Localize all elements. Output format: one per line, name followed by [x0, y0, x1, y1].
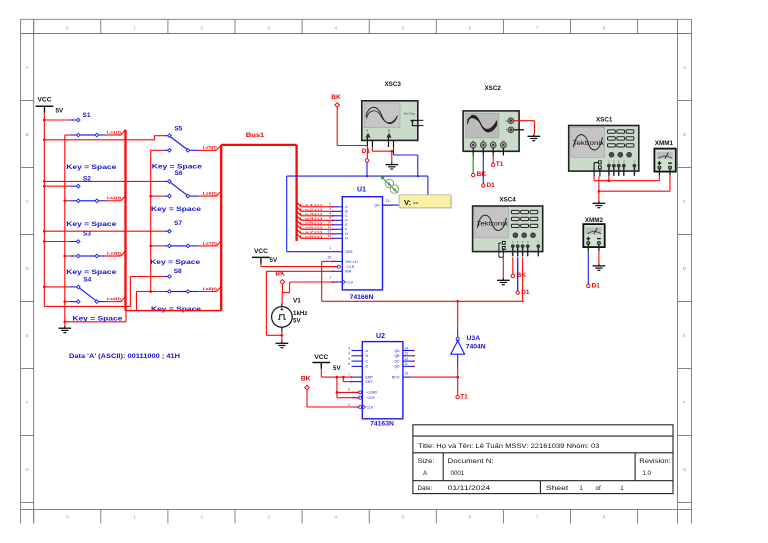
wire Q output feedback loop to SER — [287, 175, 428, 252]
svg-text:74166N: 74166N — [350, 294, 374, 301]
svg-text:0: 0 — [66, 25, 69, 30]
svg-text:BK: BK — [275, 270, 285, 277]
svg-text:11: 11 — [405, 362, 409, 366]
svg-text:Ls4(t): Ls4(t) — [300, 216, 323, 220]
wire XSC1/XMM1 red net 2 to ground — [598, 176, 670, 202]
op-amp/IC U1 74166N shift register — [327, 187, 392, 302]
connector BK (left of U2) — [301, 375, 311, 390]
svg-text:11: 11 — [328, 225, 332, 229]
svg-text:T: T — [505, 128, 507, 132]
svg-text:Document N:: Document N: — [448, 458, 494, 465]
instrument XSC3 oscilloscope — [362, 81, 424, 147]
power VCC symbol (U2) — [312, 354, 341, 372]
wire XSC2 G to ground — [514, 121, 535, 135]
svg-text:BK: BK — [301, 375, 311, 382]
ground G2 (below V1) — [276, 341, 289, 348]
svg-text:5: 5 — [402, 515, 405, 520]
node terminal dots U1 control pins — [332, 260, 339, 283]
svg-text:BK: BK — [331, 94, 341, 101]
svg-text:QH: QH — [374, 204, 380, 208]
svg-text:Ls5(t): Ls5(t) — [203, 145, 218, 150]
svg-text:3: 3 — [267, 515, 270, 520]
svg-text:2: 2 — [200, 25, 203, 30]
svg-text:S1: S1 — [83, 112, 91, 119]
svg-text:1.0: 1.0 — [642, 470, 651, 477]
svg-text:XSC1: XSC1 — [596, 117, 613, 124]
svg-text:7: 7 — [348, 373, 350, 377]
svg-text:VCC: VCC — [38, 97, 52, 104]
switch S8 — [130, 268, 221, 313]
instrument XMM1 multimeter — [654, 140, 675, 175]
svg-text:15: 15 — [405, 372, 409, 376]
svg-text:F: F — [345, 228, 347, 232]
switch S4 — [44, 277, 125, 323]
svg-text:F: F — [683, 400, 686, 405]
instrument XMM2 multimeter — [583, 217, 604, 251]
svg-text:Key = Space: Key = Space — [72, 316, 123, 323]
svg-text:E: E — [683, 333, 686, 338]
svg-text:Ls1(t): Ls1(t) — [300, 203, 323, 207]
svg-text:13: 13 — [386, 199, 390, 203]
svg-text:0: 0 — [66, 515, 69, 520]
svg-text:Ls5(t): Ls5(t) — [300, 221, 323, 225]
svg-text:Bus1: Bus1 — [246, 132, 265, 139]
svg-text:6: 6 — [348, 362, 350, 366]
svg-text:Key = Space: Key = Space — [66, 269, 117, 276]
svg-text:Ls8(t): Ls8(t) — [203, 286, 218, 291]
svg-text:4: 4 — [335, 25, 338, 30]
svg-text:Sheet: Sheet — [546, 485, 569, 492]
label Bus1 — [246, 132, 265, 139]
wire XMM2 plus (blue) to D1 — [587, 251, 589, 284]
probe V readout box — [399, 195, 452, 209]
svg-text:01/11/2024: 01/11/2024 — [448, 485, 491, 492]
svg-text:2: 2 — [348, 403, 350, 407]
wire XSC2 C to T1 — [492, 156, 494, 164]
wire VCC rail1 vertical with bottom jog to S8 feed — [44, 113, 130, 307]
svg-text:5V: 5V — [270, 257, 278, 264]
wire XSC2 B (blue) to D1 — [482, 156, 484, 184]
svg-text:10: 10 — [327, 221, 331, 225]
wire XSC4 ch2 to D1 — [517, 257, 519, 291]
svg-text:7404N: 7404N — [466, 344, 486, 351]
switch S6 — [44, 170, 221, 213]
svg-text:B: B — [388, 129, 390, 133]
svg-text:QD: QD — [394, 365, 400, 369]
connector BK (near V1/CLK) — [275, 270, 285, 292]
svg-text:5: 5 — [329, 216, 331, 220]
connector D1 (below XSC3) — [362, 148, 371, 162]
probe measurement icon (A/V green) — [380, 175, 398, 193]
svg-text:5: 5 — [402, 25, 405, 30]
wire XSC4 ch3 to T1 net — [522, 257, 524, 301]
svg-text:15: 15 — [327, 256, 331, 260]
connector BK (above XSC3) — [331, 94, 341, 107]
border zone labels — [25, 25, 687, 519]
svg-text:Ls4(t): Ls4(t) — [107, 296, 122, 301]
switch S7 — [44, 220, 221, 266]
svg-text:Ls7(t): Ls7(t) — [203, 240, 218, 245]
svg-text:G: G — [683, 467, 687, 472]
bus Bus1 (thick red) — [126, 130, 297, 311]
svg-text:XSC2: XSC2 — [484, 85, 501, 92]
svg-text:S5: S5 — [174, 126, 182, 133]
svg-text:2: 2 — [200, 515, 203, 520]
ground G4 (right of XSC2) — [528, 134, 541, 141]
svg-text:Ls3(t): Ls3(t) — [107, 250, 122, 255]
svg-text:D1: D1 — [362, 148, 371, 155]
switch S1 — [44, 112, 125, 171]
svg-text:1: 1 — [620, 485, 624, 492]
op-amp/IC U2 74163N counter — [348, 333, 415, 427]
svg-text:T1: T1 — [460, 393, 468, 400]
svg-text:Key = Space: Key = Space — [150, 259, 201, 266]
gate U3A 7404N inverter — [451, 329, 486, 366]
wire U3A output to T1 net — [456, 300, 459, 329]
switch S2 — [44, 176, 125, 229]
svg-text:Ls2(t): Ls2(t) — [300, 207, 323, 211]
svg-text:SER: SER — [345, 250, 353, 254]
svg-text:12: 12 — [405, 357, 409, 361]
svg-text:~CLR: ~CLR — [345, 265, 355, 269]
wire BK to U2 CLK — [307, 390, 360, 408]
wire BK to XSC3 channel A — [337, 107, 367, 159]
svg-text:Key = Space: Key = Space — [151, 206, 202, 213]
svg-text:Data 'A' (ASCII): 00111000 ; 4: Data 'A' (ASCII): 00111000 ; 41H — [69, 353, 180, 360]
svg-text:D1: D1 — [487, 182, 496, 189]
svg-text:D1: D1 — [592, 283, 601, 290]
svg-text:Revision:: Revision: — [639, 458, 671, 465]
ground G5 (below XSC1) — [593, 201, 606, 208]
svg-text:S7: S7 — [174, 220, 182, 227]
svg-text:Size:: Size: — [418, 458, 435, 465]
svg-text:1: 1 — [329, 246, 331, 250]
svg-text:CLK: CLK — [347, 280, 354, 284]
svg-text:INH: INH — [345, 270, 352, 274]
wire XSC3 channel B to loop — [394, 147, 418, 176]
svg-text:RCO: RCO — [392, 375, 400, 379]
instrument XSC1 Tektronix oscilloscope — [569, 117, 639, 176]
svg-text:3: 3 — [329, 207, 331, 211]
svg-text:Key = Space: Key = Space — [151, 306, 202, 313]
svg-text:ENP: ENP — [366, 375, 374, 379]
svg-text:1: 1 — [133, 25, 136, 30]
svg-text:F: F — [26, 400, 29, 405]
svg-text:QC: QC — [394, 359, 400, 363]
svg-text:XMM2: XMM2 — [585, 217, 604, 224]
svg-text:3: 3 — [267, 25, 270, 30]
connector D1 (below XSC4) — [516, 289, 530, 296]
svg-text:0001: 0001 — [451, 470, 465, 477]
svg-text:U2: U2 — [376, 333, 385, 340]
svg-text:G: G — [25, 467, 29, 472]
wire U3A input to RCO/T1 — [457, 367, 459, 396]
ground G1 (below switch ladder) — [59, 326, 72, 333]
svg-text:VCC: VCC — [254, 248, 268, 255]
svg-text:74163N: 74163N — [370, 420, 394, 427]
connector BK (below XSC2) — [472, 171, 487, 178]
label Data 'A' annotation — [69, 353, 180, 360]
power VCC symbol (top left) — [36, 97, 64, 115]
svg-text:S8: S8 — [174, 268, 182, 275]
svg-text:Tektronix: Tektronix — [477, 222, 509, 228]
svg-text:of: of — [596, 485, 601, 492]
svg-text:Date:: Date: — [418, 485, 433, 492]
wire XSC4 G bracket to ground — [499, 243, 503, 278]
svg-text:6: 6 — [469, 515, 472, 520]
svg-text:~LOAD: ~LOAD — [366, 391, 378, 395]
svg-text:Ls6(t): Ls6(t) — [203, 191, 218, 196]
svg-text:Ls3(t): Ls3(t) — [300, 212, 323, 216]
wire rail3 vertical (right switch column) — [150, 150, 152, 291]
svg-text:SH/~LD: SH/~LD — [345, 260, 358, 264]
svg-text:7: 7 — [536, 25, 539, 30]
wire XSC2 A (green) to BK — [472, 156, 474, 174]
svg-text:QB: QB — [394, 354, 400, 358]
svg-text:Ls7(t): Ls7(t) — [300, 230, 323, 234]
svg-text:S6: S6 — [175, 170, 183, 177]
wire VCC to U2 ENP/ENT/~LOAD/~CLR — [321, 369, 359, 399]
svg-text:9: 9 — [348, 388, 350, 392]
svg-text:Key = Space: Key = Space — [66, 221, 117, 228]
ground G3 (below XSC3) — [386, 162, 399, 169]
connector T1 (below U3A) — [456, 393, 468, 400]
wire U2 RCO to U3A input — [411, 376, 459, 379]
svg-text:V1: V1 — [293, 298, 301, 305]
junction dots on rails — [43, 119, 152, 324]
wire ground rail2 vertical — [65, 135, 126, 326]
wire XMM2 minus to ground — [598, 251, 600, 264]
svg-text:5: 5 — [348, 357, 350, 361]
switch S5 — [44, 126, 221, 171]
svg-text:S4: S4 — [83, 277, 91, 284]
wire V1 to U1 CLK — [282, 282, 333, 303]
svg-text:XSC3: XSC3 — [384, 81, 401, 88]
connector D1 (below XSC2) — [482, 182, 496, 189]
svg-text:4: 4 — [348, 352, 350, 356]
switch S3 — [44, 230, 125, 276]
connector T1 (below XSC2) — [492, 161, 504, 168]
source V1 clock 1kHz 5V — [272, 298, 308, 332]
wire XSC3 channel A- to ground — [372, 147, 393, 163]
ground G7 (below XMM2) — [593, 264, 606, 271]
svg-text:ENT: ENT — [366, 380, 374, 384]
svg-text:7: 7 — [329, 276, 331, 280]
instrument XSC2 4-channel oscilloscope — [463, 85, 524, 156]
svg-text:8: 8 — [603, 515, 606, 520]
svg-text:3: 3 — [348, 346, 350, 350]
svg-text:12: 12 — [327, 230, 331, 234]
svg-text:Ls2(t): Ls2(t) — [107, 195, 122, 200]
svg-text:XMM1: XMM1 — [655, 140, 674, 147]
svg-text:Key = Space: Key = Space — [66, 164, 117, 171]
svg-text:T: T — [537, 240, 539, 244]
svg-text:E: E — [26, 333, 29, 338]
title block — [413, 425, 673, 494]
title block text — [418, 441, 672, 492]
svg-text:1: 1 — [133, 515, 136, 520]
wire XSC4 ch1 to BK — [512, 257, 514, 274]
svg-text:5V: 5V — [333, 365, 341, 372]
svg-text:1: 1 — [579, 485, 583, 492]
svg-text:Ls6(t): Ls6(t) — [300, 225, 323, 229]
svg-text:7: 7 — [536, 515, 539, 520]
wire XSC1/XMM1 red net 1 — [594, 175, 659, 182]
svg-text:BK: BK — [477, 171, 487, 178]
svg-text:G: G — [345, 232, 348, 236]
svg-text:Title: Họ và Tên: Lê Tuấn MSSV: Title: Họ và Tên: Lê Tuấn MSSV: 22161039… — [418, 441, 600, 450]
svg-text:13: 13 — [405, 352, 409, 356]
svg-text:8: 8 — [603, 25, 606, 30]
svg-text:Tektronix: Tektronix — [573, 141, 605, 147]
ground G6 (below XSC4) — [497, 278, 510, 285]
svg-text:U1: U1 — [357, 187, 366, 194]
instrument XSC4 Tektronix oscilloscope — [473, 197, 543, 257]
svg-text:14: 14 — [405, 346, 409, 350]
svg-text:Ls1(t): Ls1(t) — [107, 129, 122, 134]
svg-text:QA: QA — [394, 349, 400, 353]
svg-text:T: T — [634, 160, 636, 164]
svg-text:VCC: VCC — [314, 354, 328, 361]
wire U1 SH/~LD to T1 net — [322, 261, 524, 301]
bus entries and wires to U1 inputs A-H — [297, 202, 334, 239]
svg-text:Ls8(t): Ls8(t) — [300, 234, 323, 238]
svg-text:XSC4: XSC4 — [499, 197, 516, 204]
svg-text:B: B — [683, 132, 686, 137]
svg-text:Ext Trig: Ext Trig — [404, 112, 415, 116]
power VCC symbol (U1) — [252, 248, 278, 264]
svg-text:4: 4 — [335, 515, 338, 520]
svg-text:CLK: CLK — [367, 405, 374, 409]
svg-text:1kHz: 1kHz — [293, 310, 307, 317]
svg-text:~CLR: ~CLR — [366, 396, 376, 400]
wire VCC to U1 ~CLR — [261, 264, 337, 267]
connector BK (below XSC4) — [511, 272, 526, 279]
svg-text:6: 6 — [469, 25, 472, 30]
svg-text:4: 4 — [329, 212, 331, 216]
wire XSC1 G bracket — [594, 163, 600, 177]
svg-text:U3A: U3A — [467, 335, 481, 342]
wire U1 INH to ground net — [266, 271, 332, 335]
svg-text:2: 2 — [329, 203, 331, 207]
wire D1 to blue loop — [366, 162, 368, 176]
svg-text:14: 14 — [327, 234, 331, 238]
connector D1 (below XMM2) — [587, 283, 601, 290]
wire V1 minus to ground — [281, 332, 284, 342]
svg-text:5V: 5V — [293, 317, 301, 324]
svg-text:V: --: V: -- — [404, 198, 419, 207]
svg-text:5V: 5V — [56, 108, 64, 115]
svg-text:T1: T1 — [496, 161, 504, 168]
svg-text:B: B — [26, 132, 29, 137]
